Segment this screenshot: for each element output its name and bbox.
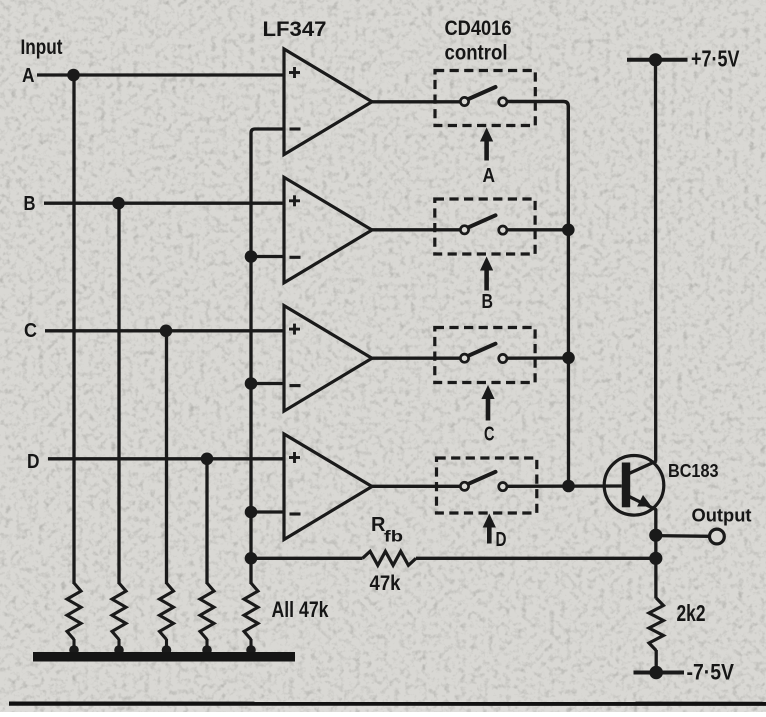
wire collector rail — [654, 60, 658, 462]
control arrow C — [481, 385, 494, 421]
svg-text:fb: fb — [384, 528, 403, 545]
switch S1 contacts and lever — [460, 87, 507, 106]
svg-text:D: D — [27, 451, 40, 473]
svg-text:CD4016: CD4016 — [445, 16, 512, 40]
power -7.5V — [634, 666, 685, 680]
wire op4 output — [371, 485, 461, 488]
ground bar — [33, 652, 295, 662]
switch box S4 (CD4016) — [437, 458, 537, 513]
wire input D — [48, 457, 285, 460]
wire collect vertical — [567, 118, 571, 486]
wire drop A — [72, 75, 75, 584]
switch box S3 (CD4016) — [435, 328, 535, 383]
wire feedback right — [416, 557, 656, 560]
wire sw4 output to base — [508, 484, 622, 488]
wire feedback left — [251, 557, 363, 560]
wire 2k2 to -7.5V — [655, 650, 658, 673]
switch box S1 (CD4016) — [435, 71, 535, 126]
junction input A — [67, 69, 80, 82]
power +7.5V — [627, 53, 688, 66]
wire drop C — [165, 331, 168, 584]
svg-text:47k: 47k — [370, 571, 401, 595]
svg-text:Output: Output — [692, 505, 752, 526]
svg-text:B: B — [24, 193, 36, 215]
junction minus op2 — [245, 250, 258, 263]
resistor R2 47k — [112, 583, 126, 655]
junction output — [649, 529, 662, 542]
svg-text:C: C — [484, 423, 495, 445]
switch S3 contacts and lever — [460, 344, 507, 363]
control arrow B — [480, 257, 493, 291]
switch box S2 (CD4016) — [435, 199, 535, 254]
svg-text:LF347: LF347 — [263, 17, 327, 41]
svg-text:B: B — [482, 291, 494, 313]
svg-text:All 47k: All 47k — [272, 597, 330, 622]
svg-text:2k2: 2k2 — [677, 600, 706, 626]
svg-text:Input: Input — [21, 36, 63, 59]
svg-text:D: D — [496, 529, 507, 551]
svg-text:C: C — [24, 320, 37, 342]
switch S2 contacts and lever — [460, 215, 507, 234]
wire drop D — [205, 459, 208, 584]
junction collect sw4 — [562, 480, 575, 493]
wire sw2 output — [507, 228, 569, 231]
junction feedback left — [245, 552, 258, 565]
wire sw1 output corner — [507, 102, 569, 121]
junction collect sw2 — [562, 224, 575, 237]
wire minus stub op4 — [251, 510, 285, 513]
op-amp U1c (LF347 section 3) — [284, 306, 372, 412]
wire input B — [44, 202, 285, 205]
output terminal — [710, 529, 725, 544]
control arrow A — [480, 128, 493, 161]
wire op2 output — [371, 228, 461, 231]
junction feedback right — [649, 552, 662, 565]
junction minus op3 — [245, 377, 258, 390]
op-amp U1a (LF347 section 1) — [284, 49, 372, 155]
resistor R3 47k — [160, 583, 174, 655]
op-amp U1d (LF347 section 4) — [284, 434, 372, 540]
wire sw3 output — [507, 356, 569, 360]
svg-text:A: A — [483, 165, 496, 187]
junction minus op4 — [245, 506, 258, 519]
transistor Q1 BC183 — [604, 456, 664, 516]
wire op3 output — [371, 357, 461, 360]
svg-text:control: control — [445, 40, 508, 64]
svg-text:A: A — [22, 65, 35, 87]
wire output — [656, 534, 710, 538]
svg-text:+7·5V: +7·5V — [691, 46, 740, 72]
resistor R1 47k — [67, 583, 81, 655]
wire op1 output — [371, 100, 461, 103]
wire input C — [45, 329, 285, 332]
resistor R4 47k — [200, 583, 214, 655]
wire minus chain — [251, 129, 285, 584]
wire minus stub op3 — [251, 382, 285, 385]
junction input B — [112, 197, 125, 210]
svg-text:-7·5V: -7·5V — [687, 660, 735, 685]
wire drop B — [117, 203, 120, 584]
resistor R5 47k — [244, 583, 258, 655]
resistor R6 2k2 — [649, 598, 663, 651]
wire minus stub op2 — [251, 255, 285, 258]
junction input D — [201, 453, 214, 466]
op-amp U1b (LF347 section 2) — [284, 177, 372, 282]
control arrow D — [483, 514, 496, 544]
resistor Rfb 47k — [363, 551, 417, 565]
junction collect sw3 — [562, 352, 575, 365]
wire emitter rail — [654, 509, 657, 599]
wire input A — [37, 73, 285, 76]
switch S4 contacts and lever — [460, 472, 507, 491]
svg-text:BC183: BC183 — [668, 460, 719, 481]
junction input C — [160, 325, 173, 338]
